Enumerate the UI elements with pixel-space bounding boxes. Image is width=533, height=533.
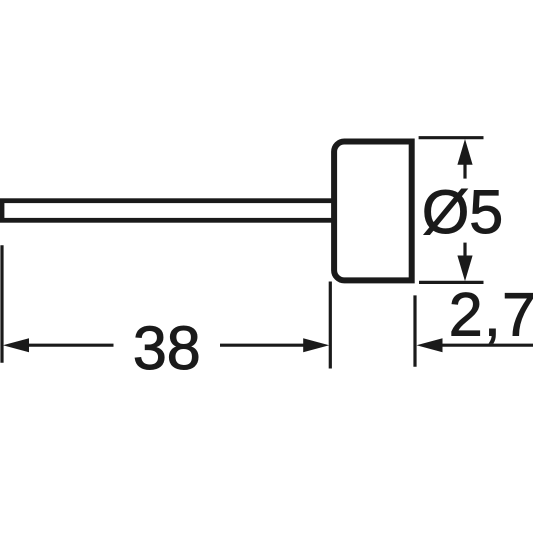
svg-text:38: 38: [133, 314, 201, 382]
svg-text:Ø5: Ø5: [422, 178, 503, 246]
svg-text:2,7: 2,7: [449, 280, 533, 348]
